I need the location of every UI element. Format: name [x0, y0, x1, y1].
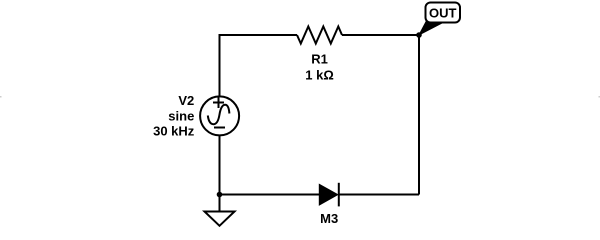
grid dot right edge [599, 96, 600, 98]
wire resistor to OUT node [342, 34, 419, 36]
wire bottom-right (right vertical to diode cathode) [339, 194, 420, 196]
svg-text:sine: sine [168, 108, 194, 123]
grid dot left edge [0, 96, 2, 98]
node OUT flag box [426, 3, 461, 23]
svg-text:M3: M3 [320, 211, 338, 226]
junction dot ground node [217, 192, 223, 198]
svg-text:V2: V2 [178, 93, 194, 108]
svg-text:OUT: OUT [429, 6, 457, 21]
ground [205, 212, 235, 226]
diode M3 [319, 183, 339, 207]
voltage source V2 [200, 96, 239, 135]
wire right vertical [418, 35, 420, 195]
wire V2 bottom to ground node [219, 135, 221, 194]
svg-text:R1: R1 [311, 51, 328, 66]
wire diode anode to ground node [220, 194, 320, 196]
node OUT junction dot [416, 32, 422, 38]
resistor R1 [297, 27, 342, 44]
wire top-left (V2 top to resistor) [220, 35, 298, 97]
node OUT flag pointer [419, 21, 442, 35]
svg-text:1 kΩ: 1 kΩ [305, 68, 334, 83]
wire stub to ground [219, 195, 221, 212]
svg-text:30 kHz: 30 kHz [153, 124, 195, 139]
